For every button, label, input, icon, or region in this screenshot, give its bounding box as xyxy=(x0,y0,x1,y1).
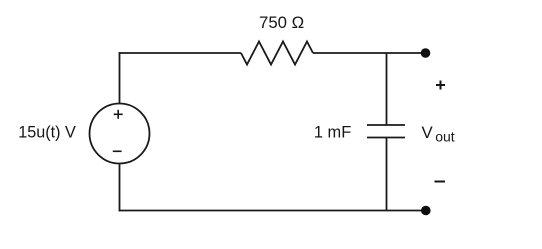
wire: capacitor branch lower xyxy=(386,138,388,211)
wire: top horizontal, source to resistor xyxy=(119,52,241,54)
node terminal bottom-right dot xyxy=(421,206,431,216)
svg-text:15u(t) V: 15u(t) V xyxy=(18,124,76,142)
node terminal top-right dot xyxy=(421,48,431,58)
svg-text:out: out xyxy=(435,128,455,144)
voltage source minus polarity mark xyxy=(113,150,122,152)
svg-text:1 mF: 1 mF xyxy=(314,123,351,141)
wire: top horizontal, resistor to node xyxy=(313,52,424,54)
wire: bottom horizontal xyxy=(119,210,424,212)
voltage source plus polarity mark xyxy=(114,110,123,119)
voltage source V1 circle xyxy=(90,104,150,164)
output plus polarity mark xyxy=(436,81,445,90)
capacitor C1 top plate xyxy=(367,124,405,126)
wire: left vertical, source to bottom wire xyxy=(119,164,121,212)
svg-text:V: V xyxy=(422,123,434,142)
resistor R1 750 Ohm zigzag xyxy=(241,42,313,65)
capacitor C1 bottom plate xyxy=(367,137,405,139)
output minus polarity mark xyxy=(435,181,446,183)
wire: capacitor branch upper xyxy=(386,53,388,125)
svg-text:750 Ω: 750 Ω xyxy=(259,13,304,32)
wire: left vertical, top wire to source xyxy=(119,52,121,104)
